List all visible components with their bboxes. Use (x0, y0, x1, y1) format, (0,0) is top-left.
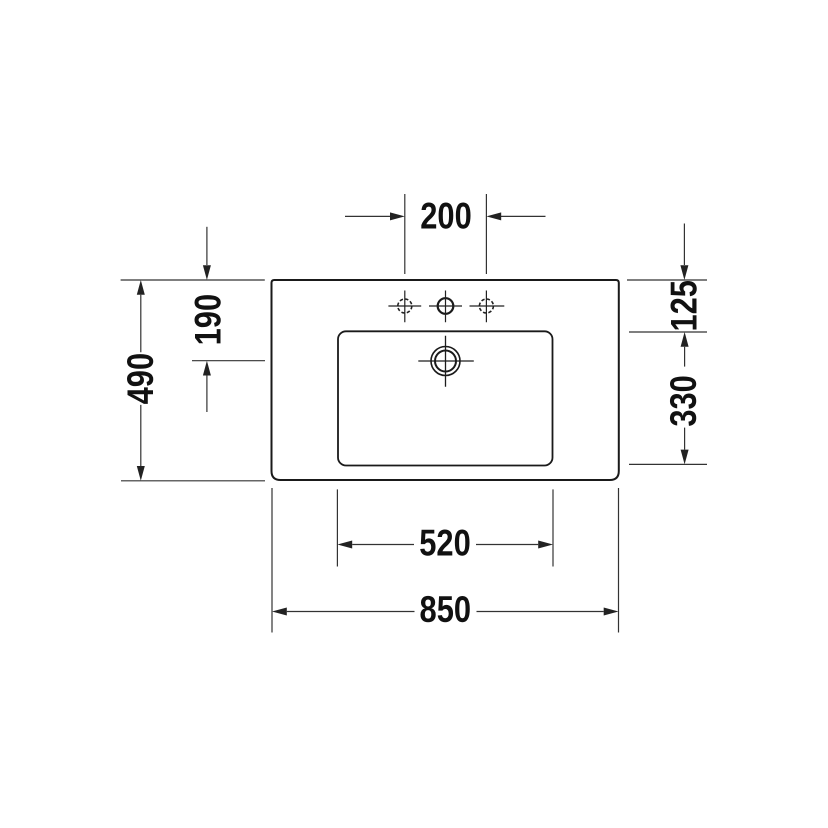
dim 520 dimension line with inside arrows (352, 544, 538, 546)
dim 125 extension line bottom / basin top (629, 331, 707, 333)
svg-text:190: 190 (187, 294, 228, 346)
dim 200 left leader+arrow (345, 215, 390, 217)
dim 330 top arrow (shared, points up to basin top line) (684, 347, 686, 367)
dim 330 bottom leader+arrow (684, 428, 686, 450)
faucet hole center crosshair (429, 291, 462, 323)
dim 190 top leader+arrow (206, 227, 208, 265)
dim 520 extension line left (336, 489, 338, 566)
dim 850 extension line left (271, 488, 273, 633)
dim 125 extension line top (627, 279, 707, 281)
svg-text:200: 200 (420, 196, 472, 237)
faucet hole right (dashed) (479, 299, 493, 313)
drain outer circle (431, 347, 460, 376)
dim 520 extension line right (552, 489, 554, 566)
drain crosshair (418, 336, 474, 387)
dim 850 extension line right (618, 488, 620, 633)
svg-text:520: 520 (419, 523, 471, 564)
dim 190 extension line (drain centerline) (192, 360, 265, 362)
dim 490 extension line bottom (121, 480, 265, 482)
svg-text:490: 490 (120, 353, 161, 405)
dim 850 dimension line with inside arrows (287, 611, 604, 613)
dim 330 extension line bottom / basin bottom (629, 463, 707, 465)
svg-text:330: 330 (663, 375, 704, 427)
faucet hole left (dashed) (398, 299, 412, 313)
dim 490 extension line top (121, 279, 265, 281)
svg-text:850: 850 (420, 589, 472, 630)
dim 490 dimension line with inside arrows (140, 295, 142, 466)
dim 200 extension line left (404, 194, 406, 274)
dim 200 right leader+arrow (501, 215, 546, 217)
washbasin outer outline (272, 280, 619, 480)
svg-text:125: 125 (663, 280, 704, 332)
faucet hole left crosshair (388, 291, 421, 323)
dim 190 bottom leader+arrow (206, 376, 208, 413)
faucet hole center (solid) (438, 298, 454, 314)
faucet hole right crosshair (470, 291, 505, 323)
dim 125 top leader+arrow (683, 224, 685, 266)
inner basin outline (338, 331, 553, 465)
drain inner circle (435, 351, 456, 372)
dim 200 extension line right (485, 194, 487, 274)
